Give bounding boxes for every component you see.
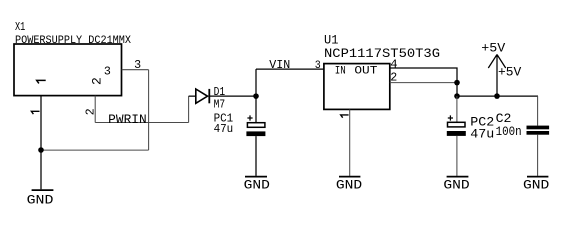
wire PWRIN horizontal [95,122,188,124]
svg-text:GND: GND [244,178,271,193]
svg-text:NCP1117ST50T3G: NCP1117ST50T3G [324,46,440,61]
ground G5 bar [527,176,548,178]
svg-text:VIN: VIN [269,58,290,72]
wire bus down to PC2 [456,96,458,122]
wire C2 down to GND [537,135,539,176]
svg-text:M7: M7 [214,97,226,111]
svg-text:100n: 100n [496,124,522,139]
capacitor PC1 bottom plate [246,131,265,136]
svg-text:2: 2 [89,77,104,85]
capacitor PC1 plus sign [247,115,252,120]
junction pin1/pin3 [38,147,44,153]
wire junction up [255,69,257,96]
pin number 1 (U1 bottom, rotated digit) [341,115,349,118]
capacitor PC2 plus sign [448,115,453,120]
wire U1 pin2 right [390,82,457,84]
junction bus left [454,93,460,99]
capacitor PC1 top plate [247,123,265,128]
ground G1 bar [32,189,54,191]
wire U1 pin1 down to GND [349,110,351,176]
junction VIN node [253,93,259,99]
wire U1 pin4 right and down [390,68,457,96]
wire PC1 down to GND [255,136,257,176]
diode D1 triangle [196,89,208,103]
diode D1 cathode bar [208,89,210,103]
capacitor PC2 bottom plate [447,131,466,136]
svg-text:GND: GND [523,178,550,193]
wire PC2 down to GND [456,136,458,176]
wire X1 pin2 down [94,96,96,123]
ground G2 bar [245,176,267,178]
svg-text:+5V: +5V [481,41,505,56]
pin number 1 (below X1, rotated digit) [31,111,39,114]
wire up to diode anode [188,96,190,122]
ground G3 bar [339,176,360,178]
pin name 1 (inside X1, rotated digit) [37,80,46,83]
capacitor C2 bottom plate [527,131,550,135]
svg-text:GND: GND [27,192,54,207]
svg-text:POWERSUPPLY_DC21MMX: POWERSUPPLY_DC21MMX [15,35,131,47]
svg-text:47u: 47u [214,122,234,136]
wire X1 pin3 stub right [122,69,149,71]
connector X1 body [14,44,122,96]
wire VIN horizontal to U1 [256,68,324,70]
svg-text:IN: IN [335,65,346,77]
ground G4 bar [447,176,469,178]
svg-text:GND: GND [443,178,470,193]
junction pin4/pin2 [454,80,460,86]
svg-text:+5V: +5V [498,65,522,80]
power +5V arrow [488,55,505,97]
wire cathode to junction [209,95,256,97]
wire pin3 horizontal to pin1 junction [41,149,149,151]
svg-text:X1: X1 [15,20,25,34]
wire pin3 vertical down [148,70,150,150]
wire anode stub [189,95,196,97]
junction +5V [494,93,500,99]
wire +5V bus horizontal [457,95,538,97]
wire X1 pin1 down to GND [40,96,42,190]
svg-text:GND: GND [336,178,363,193]
capacitor C2 top plate [527,126,550,130]
svg-text:OUT: OUT [354,65,377,77]
capacitor PC2 top plate [448,122,466,127]
svg-text:3: 3 [104,65,111,79]
svg-text:PWRIN: PWRIN [108,113,147,127]
svg-text:47u: 47u [470,127,494,142]
wire junction down to PC1 [255,96,257,123]
svg-text:3: 3 [315,60,321,72]
wire bus corner down to C2 [537,96,539,126]
voltage regulator U1 body [324,64,390,110]
